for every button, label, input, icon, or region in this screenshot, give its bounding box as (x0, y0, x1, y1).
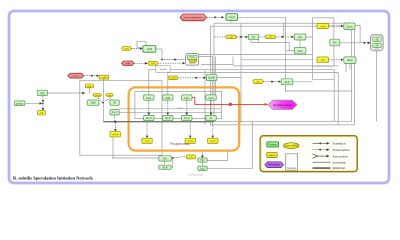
svg-text:sinR: sinR (256, 81, 260, 83)
svg-text:0F~P: 0F~P (146, 118, 152, 120)
svg-text:Hpr: Hpr (252, 36, 256, 39)
svg-text:Phenotype: Phenotype (268, 164, 281, 167)
svg-text:KinB: KinB (165, 98, 170, 100)
svg-text:KinB: KinB (126, 63, 131, 65)
svg-text:Spo0E: Spo0E (208, 77, 215, 79)
svg-text:0B:0F: 0B:0F (375, 49, 379, 51)
svg-text:ppGpp: ppGpp (16, 103, 24, 105)
svg-text:Transcription: Transcription (333, 148, 350, 152)
svg-text:spo0E: spo0E (170, 78, 176, 80)
svg-text:Gene mRNA: Gene mRNA (285, 145, 299, 148)
svg-text:spo0F: spo0F (210, 141, 216, 143)
svg-text:KinC: KinC (184, 98, 189, 100)
svg-text:sinI: sinI (190, 157, 193, 159)
svg-text:comA: comA (320, 25, 326, 28)
svg-text:Phr: Phr (333, 42, 337, 45)
svg-text:hpr: hpr (230, 36, 233, 39)
svg-text:Activation: Activation (333, 160, 347, 164)
svg-text:spo0A: spo0A (95, 94, 101, 97)
svg-text:spo0A: spo0A (112, 133, 118, 136)
svg-text:SinR: SinR (298, 51, 303, 53)
svg-text:KinD: KinD (209, 98, 214, 100)
svg-text:ComK: ComK (229, 17, 236, 19)
svg-text:Protein: Protein (268, 143, 277, 147)
svg-text:ComA: ComA (346, 25, 353, 28)
svg-text:Obg: Obg (40, 93, 45, 95)
svg-text:SigH: SigH (91, 103, 96, 105)
svg-text:(c) model footnote: (c) model footnote (188, 173, 202, 176)
svg-text:sinI: sinI (269, 37, 272, 39)
svg-text:0B~P: 0B~P (165, 118, 171, 120)
svg-text:0B: 0B (376, 39, 379, 41)
svg-text:AbrB: AbrB (147, 48, 153, 51)
svg-text:Inhibition: Inhibition (333, 166, 346, 170)
svg-text:0A: 0A (113, 102, 116, 105)
svg-text:loss of competence: loss of competence (184, 16, 203, 19)
svg-text:RapA: RapA (347, 59, 353, 62)
svg-text:KinA: KinA (146, 97, 151, 100)
svg-text:SinI: SinI (298, 37, 302, 39)
svg-text:0A~P: 0A~P (184, 117, 190, 120)
svg-text:sigH: sigH (88, 86, 92, 88)
svg-text:KinA: KinA (190, 56, 195, 59)
svg-text:spo0B: spo0B (188, 141, 194, 143)
svg-text:0A~P: 0A~P (112, 111, 118, 114)
svg-text:Sporulation Genes: Sporulation Genes (273, 104, 293, 107)
svg-text:B. subtilis Sporulation Initia: B. subtilis Sporulation Initiation Netwo… (13, 175, 93, 180)
svg-text:Hpr: Hpr (201, 159, 205, 162)
svg-text:Gene: Gene (269, 153, 276, 157)
svg-text:SinI: SinI (163, 159, 167, 161)
svg-text:Complex: Complex (287, 167, 297, 170)
svg-text:Association: Association (333, 154, 348, 158)
svg-text:transition: transition (177, 107, 184, 110)
svg-text:SinR: SinR (285, 82, 290, 84)
svg-text:stress: stress (73, 75, 79, 78)
svg-text:SinR: SinR (163, 167, 168, 169)
svg-text:ScoC: ScoC (200, 168, 206, 170)
svg-text:Spo0B: Spo0B (160, 69, 167, 71)
svg-text:Transition: Transition (333, 142, 346, 146)
